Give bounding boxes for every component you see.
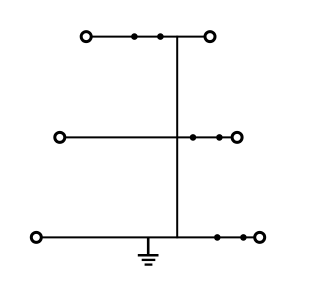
junction dot top level right xyxy=(157,33,164,40)
junction dot middle level right xyxy=(216,134,223,141)
wire vertical bus linking all levels xyxy=(176,36,178,239)
wire middle level conductor xyxy=(60,136,237,138)
terminal top-left open circle xyxy=(81,32,91,42)
junction dot bottom level right xyxy=(240,234,247,241)
terminal top-right open circle xyxy=(205,32,215,42)
terminal middle-left open circle xyxy=(55,132,65,142)
terminal bottom-left open circle xyxy=(31,232,41,242)
junction dot bottom level left xyxy=(214,234,221,241)
terminal middle-right open circle xyxy=(232,132,242,142)
terminal bottom-right open circle xyxy=(255,232,265,242)
ground xyxy=(138,237,159,264)
wire bottom level conductor xyxy=(36,236,259,238)
wire top level conductor xyxy=(86,36,210,38)
junction dot middle level left xyxy=(190,134,197,141)
junction dot top level left xyxy=(131,33,138,40)
